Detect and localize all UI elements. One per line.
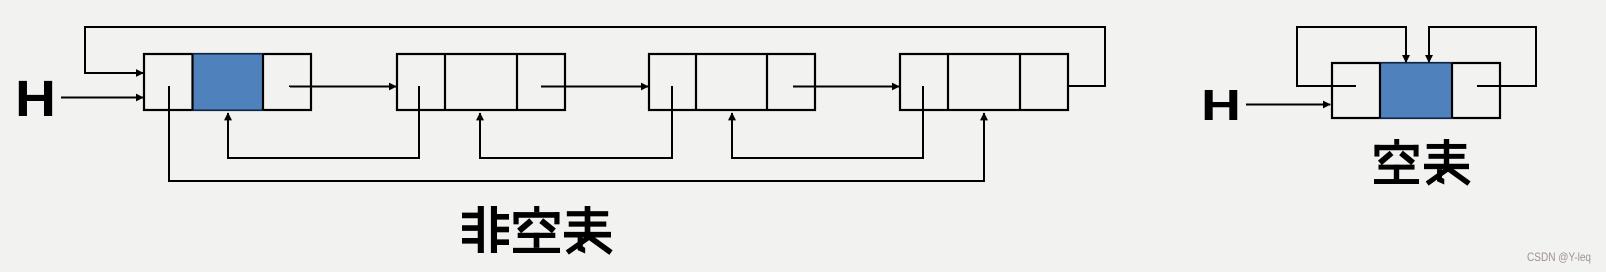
node 3 box bbox=[649, 54, 815, 110]
wire H to empty node bbox=[1246, 104, 1330, 106]
wire node4.prev back to node3 bbox=[732, 86, 923, 158]
node 2 box bbox=[397, 54, 565, 110]
wire node2.next to node3 bbox=[541, 86, 648, 88]
glyph 空 bbox=[1374, 139, 1419, 184]
glyph 表 bbox=[564, 206, 611, 253]
head pointer label H (non-empty list) bbox=[15, 70, 56, 127]
wire node3.prev back to node2 bbox=[480, 86, 672, 158]
glyph 表 bbox=[1424, 139, 1469, 184]
node 4 box bbox=[900, 54, 1068, 110]
head pointer label H (empty list) bbox=[1201, 81, 1241, 130]
glyph 非 bbox=[462, 206, 509, 253]
svg-text:CSDN @Y-leq: CSDN @Y-leq bbox=[1527, 250, 1591, 264]
svg-text:H: H bbox=[1201, 81, 1241, 130]
empty node box bbox=[1332, 63, 1500, 118]
label 空表 (empty list) bbox=[1374, 139, 1469, 184]
wire node3.next to node4 bbox=[793, 86, 899, 88]
wire H to node1 bbox=[61, 97, 143, 99]
wire node1.prev down along bottom to node4 bbox=[169, 86, 984, 181]
wire node2.prev back to node1 bbox=[228, 86, 419, 158]
label 非空表 (non-empty list) bbox=[462, 206, 611, 253]
wire empty-node prev self-loop (left) bbox=[1297, 27, 1406, 86]
glyph 空 bbox=[513, 206, 560, 253]
wire circular next: node4.next over top back to node1 bbox=[85, 27, 1105, 86]
wire empty-node next self-loop (right) bbox=[1429, 27, 1536, 86]
watermark CSDN @Y-leq bbox=[1527, 250, 1591, 264]
node 1 box bbox=[144, 54, 311, 110]
svg-text:H: H bbox=[15, 70, 56, 127]
wire node1.next to node2 bbox=[290, 86, 396, 89]
